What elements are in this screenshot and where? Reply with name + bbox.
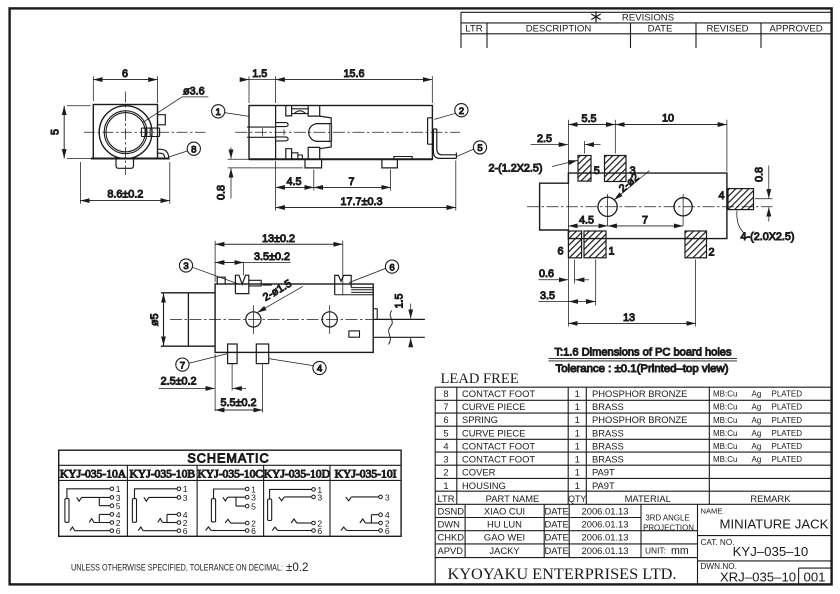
svg-text:2.5±0.2: 2.5±0.2	[161, 376, 197, 388]
B wire ring to pin2	[163, 522, 178, 524]
pc dim 3.5 line	[539, 301, 596, 303]
svg-text:5.5: 5.5	[581, 113, 596, 125]
dim 2.5±0.2 extensions	[215, 354, 232, 411]
svg-text:0.8: 0.8	[754, 167, 766, 182]
svg-text:8: 8	[191, 144, 196, 155]
svg-text:PLATED: PLATED	[772, 416, 803, 425]
svg-text:KYJ–035–10: KYJ–035–10	[733, 544, 809, 559]
front view contact window	[141, 128, 159, 136]
dimension 6 line	[93, 79, 157, 81]
svg-text:JACKY: JACKY	[489, 545, 520, 556]
A junction 4-2	[99, 514, 110, 522]
svg-text:APVD: APVD	[438, 545, 464, 556]
svg-text:2: 2	[708, 247, 714, 259]
svg-text:MB:Cu: MB:Cu	[713, 442, 737, 451]
schematic cell I	[341, 492, 390, 536]
D shield contact	[272, 527, 278, 530]
B wire tip to pin3	[149, 496, 178, 498]
contact prong 3 (V-notch)	[235, 275, 248, 293]
balloon 3	[179, 259, 192, 272]
balloon 2	[455, 104, 468, 117]
D wire tip to pin3	[284, 496, 311, 498]
D pin circles	[312, 488, 316, 533]
dim Ø5 arrows	[163, 293, 165, 304]
svg-text:6: 6	[122, 68, 128, 80]
bottom view body	[215, 284, 373, 352]
svg-text:1: 1	[575, 401, 580, 412]
A shield contact	[70, 527, 75, 531]
B pin numbers	[183, 484, 188, 536]
pc dim 2.5 arrows	[531, 144, 569, 146]
side view center cross 2	[283, 129, 285, 135]
svg-text:BRASS: BRASS	[592, 427, 624, 438]
svg-text:GAO WEI: GAO WEI	[484, 532, 525, 543]
svg-text:DATE: DATE	[544, 519, 568, 530]
D wire sleeve to pin1	[270, 489, 312, 499]
I shield contact	[341, 527, 347, 530]
svg-text:KYJ-035-10A: KYJ-035-10A	[60, 468, 127, 481]
dim 5.5±0.2 line	[215, 409, 263, 411]
A sleeve bar	[65, 499, 69, 523]
D pin numbers	[317, 485, 322, 536]
label 2-(1.2X2.5) leader	[552, 160, 578, 166]
svg-text:CAT. NO.: CAT. NO.	[701, 538, 735, 547]
bottom view top bump	[217, 277, 225, 284]
front view vertical centerline	[125, 92, 127, 176]
svg-text:MINIATURE JACK: MINIATURE JACK	[720, 517, 829, 532]
I ring contact	[360, 519, 366, 523]
A ring contact	[89, 519, 94, 523]
svg-text:0.8: 0.8	[216, 185, 228, 200]
svg-text:4.5: 4.5	[579, 214, 594, 226]
B ring contact	[158, 519, 163, 523]
svg-text:BRASS: BRASS	[592, 440, 624, 451]
I junction 4-2	[371, 515, 379, 523]
svg-text:MB:Cu: MB:Cu	[713, 416, 737, 425]
svg-text:LTR: LTR	[437, 493, 454, 504]
pc top extension lines	[568, 120, 727, 327]
pc dim 0.6 extensions	[575, 260, 596, 306]
svg-text:SCHEMATIC: SCHEMATIC	[187, 451, 269, 465]
svg-text:Tolerance : ±0.1(Printed–top v: Tolerance : ±0.1(Printed–top view)	[556, 363, 729, 375]
svg-text:6: 6	[116, 526, 121, 536]
svg-text:PLATED: PLATED	[772, 442, 803, 451]
svg-text:0.6: 0.6	[539, 268, 554, 280]
C wire shield to pin6	[211, 530, 245, 532]
dim 1.5 arrows (right)	[410, 304, 412, 319]
side view bottom block 2	[308, 147, 320, 159]
svg-text:BRASS: BRASS	[592, 401, 624, 412]
svg-text:1.5: 1.5	[252, 68, 267, 80]
I pin circles	[379, 495, 383, 532]
front view bent foot (right)	[158, 149, 169, 158]
I wire shield to pin6	[347, 530, 379, 532]
balloon 5	[473, 141, 486, 154]
pad 3 (2.0x2.5)	[605, 156, 627, 182]
svg-text:DSND: DSND	[438, 505, 465, 516]
svg-text:3: 3	[183, 493, 188, 503]
svg-text:1: 1	[575, 427, 580, 438]
balloon 8 leader	[169, 151, 188, 157]
C wire tip to junction	[228, 496, 236, 498]
svg-text:6: 6	[385, 526, 390, 536]
A wire ring to pin2	[94, 522, 110, 524]
svg-text:PROJECTION: PROJECTION	[643, 524, 694, 533]
side view slot end double line	[330, 124, 332, 142]
side view left center cross	[262, 128, 264, 136]
balloon 4	[313, 361, 326, 374]
front view outer circle	[99, 106, 152, 159]
svg-text:PHOSPHOR BRONZE: PHOSPHOR BRONZE	[592, 414, 687, 425]
dim 3.5±0.2 line	[244, 262, 291, 264]
side view left contact lines	[247, 127, 276, 137]
dimension 4.5 line	[276, 186, 314, 188]
right strip (part 8 terminal)	[373, 319, 425, 337]
svg-text:17.7±0.3: 17.7±0.3	[341, 196, 383, 208]
revisions column headers	[465, 24, 822, 35]
note underline double	[549, 358, 738, 361]
svg-text:3: 3	[443, 454, 448, 465]
dimension 15.6 line	[276, 79, 433, 81]
schematic cell D	[268, 485, 323, 536]
pc view centerline	[527, 206, 773, 208]
svg-text:HU LUN: HU LUN	[487, 519, 522, 530]
A tip contact	[77, 497, 82, 501]
side view plug cavity (U slot)	[309, 116, 331, 149]
svg-text:1: 1	[608, 246, 614, 258]
svg-text:BRASS: BRASS	[592, 454, 624, 465]
svg-text:MB:Cu: MB:Cu	[713, 390, 737, 399]
svg-text:DATE: DATE	[648, 24, 673, 35]
svg-text:3.5: 3.5	[540, 290, 555, 302]
dimension 17.7±0.3 line	[276, 207, 456, 209]
svg-text:mm: mm	[671, 545, 689, 557]
side view right bent terminal	[433, 129, 456, 158]
bottom view hole A	[246, 312, 261, 327]
dim 5.5±0.2 extension	[262, 365, 264, 413]
hole circle B	[674, 198, 692, 216]
pc dim 7 line	[608, 225, 684, 227]
svg-text:DATE: DATE	[544, 545, 568, 556]
svg-text:HOUSING: HOUSING	[462, 480, 506, 491]
svg-text:1: 1	[443, 480, 448, 491]
dimension 5 extension line	[67, 106, 91, 159]
B pin circles	[177, 487, 181, 533]
B junction 4-2	[167, 514, 177, 522]
parts list rows text	[437, 388, 802, 504]
side view bottom block 1	[286, 149, 292, 160]
balloon 6 leader	[349, 268, 386, 282]
side view top block 1	[286, 106, 292, 116]
svg-text:3RD ANGLE: 3RD ANGLE	[645, 514, 689, 523]
svg-text:KYJ-035-10C: KYJ-035-10C	[197, 468, 263, 481]
balloon 4 leader	[269, 359, 313, 366]
dimension 6 extension lines	[93, 76, 157, 103]
svg-text:UNLESS OTHERWISE SPECIFIED, TO: UNLESS OTHERWISE SPECIFIED, TOLERANCE ON…	[71, 562, 283, 573]
B wire shield to pin6	[143, 530, 177, 532]
svg-text:1: 1	[575, 467, 580, 478]
bottom view sleeve	[161, 293, 215, 346]
svg-text:Ag: Ag	[752, 429, 762, 438]
svg-text:7: 7	[348, 176, 354, 188]
spring prong 6 (V-notch)	[335, 275, 352, 294]
I wire ring to pin2	[366, 522, 379, 524]
svg-text:DESCRIPTION: DESCRIPTION	[526, 24, 592, 35]
side view bezel line	[275, 106, 277, 160]
C wire sleeve to pin1	[214, 489, 246, 499]
svg-text:CHKD: CHKD	[438, 532, 465, 543]
svg-text:KYOYAKU ENTERPRISES LTD.: KYOYAKU ENTERPRISES LTD.	[448, 565, 677, 583]
side view seating plane thick line	[249, 158, 433, 160]
balloon 7	[176, 358, 189, 371]
svg-text:15.6: 15.6	[343, 68, 364, 80]
front view middle circle	[104, 111, 147, 154]
dimension 0.8 arrows	[230, 148, 232, 159]
svg-text:PART NAME: PART NAME	[486, 493, 540, 504]
svg-text:CURVE PIECE: CURVE PIECE	[462, 401, 525, 412]
name section horizontal lines	[698, 536, 831, 561]
svg-text:2-(1.2X2.5): 2-(1.2X2.5)	[489, 162, 543, 174]
revisions asterisk	[591, 11, 600, 22]
side view prong lower	[276, 137, 289, 141]
spring leaf lines	[335, 288, 374, 295]
dimension 5 line	[63, 106, 65, 159]
C ring contact	[225, 519, 231, 523]
svg-text:SPRING: SPRING	[462, 414, 498, 425]
A pin numbers	[116, 484, 121, 536]
svg-text:1.5: 1.5	[394, 293, 406, 308]
svg-text:PLATED: PLATED	[772, 455, 803, 464]
svg-text:2-ø1.5: 2-ø1.5	[261, 278, 294, 304]
svg-text:1: 1	[575, 480, 580, 491]
svg-text:T:1.6 Dimensions of PC boa: T:1.6 Dimensions of PC board holes	[555, 347, 732, 359]
dimension 17.7±0.3 extension line	[455, 161, 457, 211]
side view top bridge	[292, 109, 309, 114]
parts list header row	[437, 493, 791, 504]
svg-text:1: 1	[216, 107, 221, 118]
hole center marks	[253, 305, 329, 334]
balloon 6	[385, 260, 398, 273]
bottom view hole B	[322, 312, 337, 327]
svg-text:COVER: COVER	[462, 467, 496, 478]
A wire sleeve to pin1	[67, 489, 110, 499]
svg-text:PLATED: PLATED	[772, 403, 803, 412]
front view right tab	[158, 115, 166, 125]
svg-text:2: 2	[459, 106, 464, 117]
balloon 5 leader	[456, 149, 473, 157]
title block horizontal lines	[435, 518, 697, 558]
svg-text:CONTACT FOOT: CONTACT FOOT	[462, 454, 535, 465]
svg-text:CONTACT FOOT: CONTACT FOOT	[462, 440, 535, 451]
side view top block 2	[308, 106, 320, 117]
svg-text:6: 6	[557, 246, 563, 258]
D ring contact	[291, 519, 297, 523]
svg-text:CURVE PIECE: CURVE PIECE	[462, 427, 525, 438]
side view prong upper	[276, 123, 289, 127]
svg-text:2: 2	[443, 467, 448, 478]
svg-text:2006.01.13: 2006.01.13	[582, 505, 629, 516]
C pin numbers	[251, 484, 256, 536]
terminal tab 4	[256, 344, 268, 364]
svg-text:LTR: LTR	[465, 24, 482, 35]
svg-text:PA9T: PA9T	[592, 467, 615, 478]
svg-text:4: 4	[718, 190, 724, 202]
svg-text:10: 10	[662, 113, 674, 125]
svg-text:UNIT:: UNIT:	[645, 546, 666, 556]
front view horizontal centerline	[84, 131, 206, 133]
svg-text:KYJ-035-10I: KYJ-035-10I	[335, 468, 397, 481]
bottom view centerline	[170, 318, 425, 320]
front view bottom tab	[116, 159, 134, 169]
front view body	[93, 105, 157, 159]
C junction 3-5	[236, 497, 246, 506]
svg-text:2.5: 2.5	[537, 133, 552, 145]
side view body outline	[249, 106, 432, 160]
svg-text:XRJ–035–10: XRJ–035–10	[720, 569, 796, 584]
pc dim 0.8 arrows	[768, 166, 770, 199]
svg-text:4: 4	[317, 364, 323, 375]
B wire sleeve to pin1	[135, 489, 178, 499]
svg-text:6: 6	[317, 526, 322, 536]
svg-text:DATE: DATE	[544, 532, 568, 543]
schematic cell A	[65, 484, 121, 536]
pc dim 5.5 line	[568, 124, 615, 126]
label 4-(2.0X2.5) leader	[737, 211, 746, 235]
balloon 2 leader	[434, 113, 455, 119]
svg-text:5: 5	[251, 502, 256, 512]
dimension 7 line	[314, 186, 391, 188]
break squiggle	[389, 311, 393, 345]
svg-text:XIAO CUI: XIAO CUI	[484, 505, 525, 516]
D wire ring to pin2	[297, 522, 312, 524]
svg-text:MB:Cu: MB:Cu	[713, 429, 737, 438]
A pin circles	[110, 487, 114, 533]
svg-text:3: 3	[317, 492, 322, 502]
svg-text:3: 3	[183, 261, 188, 272]
svg-text:8.6±0.2: 8.6±0.2	[107, 189, 143, 201]
svg-text:Ag: Ag	[752, 390, 762, 399]
svg-text:QTY: QTY	[568, 494, 586, 504]
svg-text:KYJ-035-10B: KYJ-035-10B	[129, 468, 195, 481]
svg-text:PLATED: PLATED	[772, 390, 803, 399]
svg-text:001: 001	[803, 569, 825, 584]
svg-text:Ag: Ag	[752, 442, 762, 451]
svg-text:6: 6	[251, 526, 256, 536]
side view rear foot pin	[382, 159, 398, 168]
front view inner circle Ø3.6	[106, 113, 145, 152]
pc dim 0.8 extension	[755, 198, 773, 200]
svg-text:6: 6	[183, 526, 188, 536]
dimension 1.5/15.6 extension lines	[249, 76, 432, 103]
svg-text:6: 6	[389, 262, 394, 273]
svg-text:±0.2: ±0.2	[286, 561, 308, 574]
side view seating step	[394, 157, 412, 160]
hole center marks	[608, 194, 684, 226]
svg-text:8: 8	[443, 388, 448, 399]
side view right latch plate	[428, 118, 433, 144]
label 2-Ø1.5 leader	[257, 286, 303, 312]
svg-text:DATE: DATE	[544, 505, 568, 516]
svg-text:5: 5	[477, 143, 482, 154]
balloon 1 leader	[225, 113, 249, 117]
B tip contact	[144, 497, 149, 501]
dimension 8.6±0.2 extension lines	[80, 162, 169, 204]
dimension 4.5/7 extension lines	[276, 161, 391, 211]
svg-text:5: 5	[50, 129, 62, 135]
pc dim 10 line	[615, 124, 727, 126]
svg-text:LEAD FREE: LEAD FREE	[441, 371, 519, 387]
D wire shield to pin6	[278, 530, 312, 532]
dimension 1.5 line	[242, 79, 276, 81]
dim 13±0.2 extensions	[215, 241, 343, 295]
svg-text:ø3.6: ø3.6	[183, 86, 205, 98]
svg-text:Ag: Ag	[752, 416, 762, 425]
pad 2	[685, 231, 707, 258]
pc dim 13 line	[695, 260, 697, 327]
dimension 8.6±0.2 line	[80, 200, 169, 202]
A wire tip to junction	[82, 496, 100, 498]
dimension 0.8 extension lines	[228, 159, 303, 168]
I tip contact	[346, 497, 352, 501]
svg-text:1: 1	[575, 454, 580, 465]
svg-text:4.5: 4.5	[286, 176, 301, 188]
svg-text:7: 7	[180, 360, 185, 371]
bottom view sleeve left edge / Ø5 dim line	[163, 293, 165, 346]
svg-text:7: 7	[443, 401, 448, 412]
svg-text:13: 13	[623, 312, 635, 324]
svg-text:PA9T: PA9T	[592, 480, 615, 491]
svg-text:5.5±0.2: 5.5±0.2	[221, 397, 257, 409]
svg-text:PLATED: PLATED	[772, 429, 803, 438]
svg-text:5: 5	[594, 165, 600, 177]
balloon 7 leader	[189, 354, 228, 364]
title block vertical lines	[465, 504, 697, 584]
C pin circles	[245, 487, 249, 532]
schematic cell B	[132, 484, 187, 536]
front view seating plane line	[91, 158, 170, 160]
svg-text:REMARK: REMARK	[750, 493, 791, 504]
contact edge dash	[262, 284, 271, 286]
B sleeve bar	[132, 499, 136, 523]
dim 13±0.2 line	[215, 243, 343, 245]
pad 1	[584, 231, 606, 258]
svg-text:MATERIAL: MATERIAL	[625, 493, 671, 504]
svg-text:MB:Cu: MB:Cu	[713, 455, 737, 464]
schematic cell C	[206, 484, 257, 536]
parts table horizontal lines	[435, 387, 831, 504]
svg-text:REVISIONS: REVISIONS	[622, 13, 674, 24]
svg-text:Ag: Ag	[752, 455, 762, 464]
C wire ring to pin2	[231, 522, 246, 524]
svg-text:REVISED: REVISED	[706, 24, 748, 35]
balloon 8	[187, 142, 200, 155]
svg-text:1: 1	[575, 414, 580, 425]
schematic table grid	[59, 450, 401, 536]
svg-text:APPROVED: APPROVED	[769, 24, 822, 35]
balloon 3 leader	[192, 267, 239, 284]
I pin numbers	[385, 492, 390, 536]
svg-text:MB:Cu: MB:Cu	[713, 403, 737, 412]
svg-text:CONTACT FOOT: CONTACT FOOT	[462, 388, 535, 399]
revisions table grid	[461, 12, 831, 48]
sheet number box	[799, 568, 831, 584]
C sleeve bar	[211, 499, 215, 522]
C tip contact	[223, 497, 228, 501]
title block texts	[438, 505, 829, 584]
svg-text:4-(2.0X2.5): 4-(2.0X2.5)	[741, 231, 795, 243]
A wire shield to pin6	[75, 530, 110, 532]
svg-text:5: 5	[443, 427, 448, 438]
